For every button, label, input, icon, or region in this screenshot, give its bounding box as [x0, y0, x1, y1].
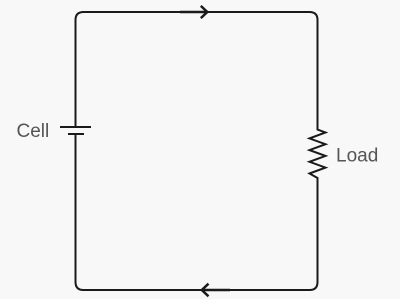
svg-text:Load: Load: [336, 146, 378, 167]
svg-text:Cell: Cell: [17, 121, 50, 142]
